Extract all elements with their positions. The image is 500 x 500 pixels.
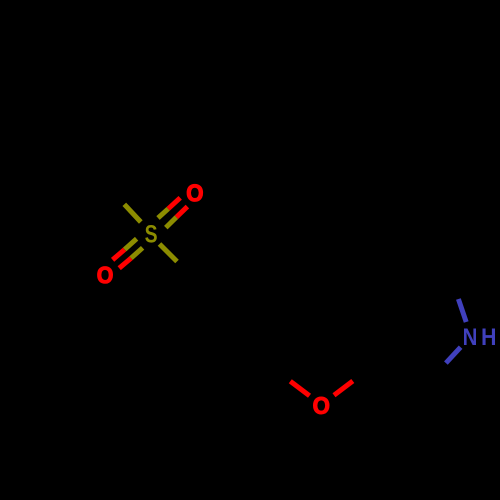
wire: furan C-O bond up-left (oxygen half) (290, 381, 309, 396)
wire: bond S-aryl ring (sulfur half) (160, 244, 178, 262)
wire: double bond S=O top-right, lower line, sulfur half (166, 217, 177, 227)
wire: bond S-phenyl (sulfur half) (124, 204, 141, 222)
atom label O (benzofuran ring oxygen) (314, 397, 329, 414)
wire: double bond S=O bottom-left, upper line, sulfur half (125, 239, 137, 250)
atom label S (sulfonyl sulfur) (145, 225, 157, 243)
atom label O (sulfonyl oxygen bottom-left) (98, 267, 113, 284)
wire: double bond S=O bottom-left, upper line, oxygen half (113, 250, 125, 260)
atom label H (on piperidine nitrogen) (483, 329, 496, 346)
wire: double bond S=O top-right, lower line, oxygen half (176, 207, 187, 218)
wire: piperidine N-C bond down-left (nitrogen half) (446, 347, 461, 363)
wire: double bond S=O top-right, upper line, oxygen half (168, 198, 180, 209)
wire: double bond S=O bottom-left, lower line, oxygen half (119, 258, 131, 268)
atom label N (piperidine nitrogen) (464, 329, 476, 346)
atom label O (sulfonyl oxygen top-right) (187, 185, 202, 202)
wire: piperidine N-C bond up (nitrogen half) (458, 299, 466, 322)
wire: furan C-O bond up-right to spiro carbon (oxygen half) (334, 381, 353, 395)
wire: double bond S=O top-right, upper line, sulfur half (158, 209, 168, 218)
wire: double bond S=O bottom-left, lower line, sulfur half (131, 248, 143, 258)
